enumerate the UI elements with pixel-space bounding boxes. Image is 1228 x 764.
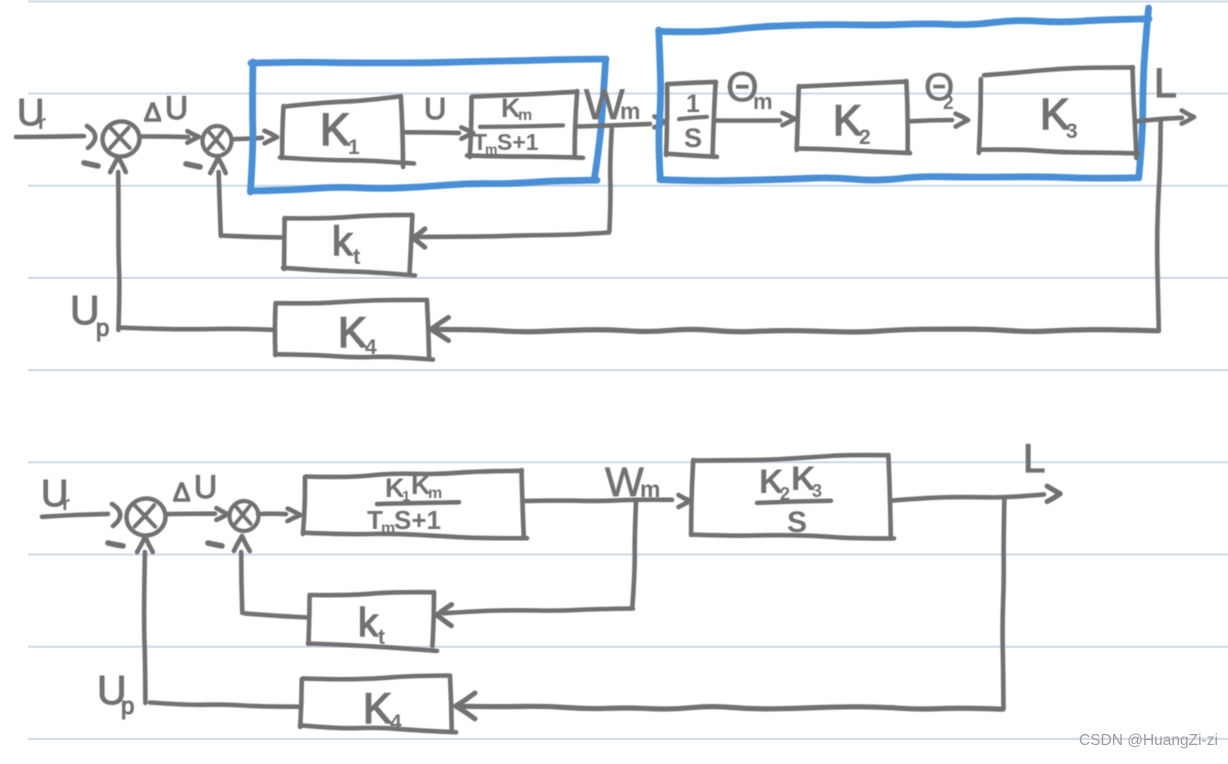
ruled line 7 xyxy=(28,553,1228,555)
svg-text:3: 3 xyxy=(812,481,822,501)
block K3 (top) xyxy=(984,67,1133,75)
block K1 (top) xyxy=(284,96,401,106)
arrowhead into K4 box (bottom) xyxy=(456,693,475,706)
summing junction 2 (top) xyxy=(201,125,233,157)
block K4 (top) xyxy=(277,300,427,303)
wire: K4 to junction1 (bottom) xyxy=(150,703,300,707)
svg-text:4: 4 xyxy=(390,711,402,734)
svg-text:r: r xyxy=(62,493,70,515)
svg-text:U: U xyxy=(165,90,188,126)
arrowhead into K2K3 block xyxy=(679,501,691,507)
arrowhead into kt box (bottom) xyxy=(437,605,452,615)
summing junction 1 (bottom) xyxy=(124,496,168,538)
svg-text:k: k xyxy=(332,218,353,264)
ruled line 8 xyxy=(28,646,1228,648)
svg-text:2: 2 xyxy=(859,126,871,149)
svg-text:p: p xyxy=(121,693,134,720)
wire: K4 feedback horizontal (top) xyxy=(437,329,1158,332)
svg-text:Δ: Δ xyxy=(173,477,190,507)
arrowhead up into junction1 (bottom) xyxy=(145,537,153,552)
svg-text:2: 2 xyxy=(943,93,954,114)
wire: K3 to output L (top) xyxy=(1137,118,1182,122)
block kt (bottom) xyxy=(311,592,434,595)
block kt (top) xyxy=(286,215,412,218)
svg-text:3: 3 xyxy=(1066,120,1078,143)
minus sign at bottom junction1 xyxy=(108,543,123,546)
svg-text:K: K xyxy=(338,309,367,357)
svg-text:U: U xyxy=(424,91,446,126)
arrowhead into Km block xyxy=(461,133,473,139)
svg-text:m: m xyxy=(485,141,497,157)
blue group box 2 (around 1/S, K2, K3) xyxy=(659,19,1149,32)
wire: junction2 to K1 (top) xyxy=(232,138,262,139)
minus sign at top junction 2 xyxy=(186,164,200,167)
svg-text:K: K xyxy=(833,97,862,145)
wire: K2 to K3 xyxy=(909,120,952,121)
ruled line 9 xyxy=(28,738,1228,740)
wire: kt feedback horizontal (bottom) xyxy=(443,609,633,614)
svg-text:K: K xyxy=(1040,90,1069,139)
block K2K3/S (bottom) xyxy=(694,455,888,460)
wire: output tap down for K4 feedback (bottom) xyxy=(1003,497,1005,709)
svg-text:W: W xyxy=(584,81,625,129)
summing junction 2 (bottom) xyxy=(228,500,260,532)
svg-text:m: m xyxy=(620,98,640,124)
arrowhead into 1/S block xyxy=(654,122,665,128)
arrowhead up into junction2 (top) xyxy=(218,158,226,173)
svg-text:K: K xyxy=(363,685,392,733)
arrowhead into K1Km block xyxy=(287,515,300,521)
arrowhead into K2 xyxy=(782,119,795,125)
minus sign at top junction 1 xyxy=(84,163,98,166)
block 1/S (top) xyxy=(668,82,716,84)
wire: kt to junction2 (bottom) xyxy=(245,613,308,617)
svg-text:S: S xyxy=(787,506,807,539)
block Km/(TmS+1) (top) xyxy=(472,92,577,97)
arrowhead output L (top) xyxy=(1182,117,1194,124)
svg-text:m: m xyxy=(428,485,442,502)
arrowhead output L (bottom) xyxy=(1047,494,1060,502)
arrowhead into bottom junction1 xyxy=(112,504,120,526)
svg-text:m: m xyxy=(518,107,532,124)
arrowhead into bottom junction2 xyxy=(216,514,228,520)
wire: K1Km block to K2K3 block with Wm label xyxy=(525,500,672,501)
blue group box 1 (around K1 and Km/TmS+1) xyxy=(251,59,606,63)
svg-text:m: m xyxy=(753,89,773,114)
block K2 (top) xyxy=(800,82,906,87)
ruled line 6 xyxy=(28,461,1228,463)
wire: junction2 to K1Km block xyxy=(258,511,286,516)
wire: Km block to 1/S block xyxy=(577,124,650,127)
arrowhead into K1 box xyxy=(265,137,278,143)
wire: kt feedback horizontal (top) xyxy=(418,233,609,237)
arrowhead into top summing junction 2 xyxy=(187,137,199,143)
wire: 1/S to K2 xyxy=(716,118,780,123)
svg-text:L: L xyxy=(1023,437,1045,481)
wire: K4 to junction1 (top) xyxy=(122,328,275,330)
block K4 (bottom) xyxy=(303,676,450,680)
svg-text:S+1: S+1 xyxy=(497,129,539,155)
svg-text:S: S xyxy=(684,123,702,153)
svg-text:W: W xyxy=(605,459,644,505)
wire: K1 to Km block with node U label xyxy=(403,130,459,135)
summing junction 1 (top) xyxy=(100,119,142,159)
wire: junction1 to junction2 (top) xyxy=(141,134,188,139)
svg-text:S+1: S+1 xyxy=(394,505,441,535)
ruled line 5 xyxy=(28,369,1228,371)
svg-text:k: k xyxy=(358,601,379,645)
ruled line 3 xyxy=(28,185,1228,187)
svg-text:CSDN @HuangZi-zi: CSDN @HuangZi-zi xyxy=(1079,732,1218,749)
svg-text:1: 1 xyxy=(348,136,360,159)
arrowhead into K4 box (top) xyxy=(431,317,448,329)
svg-text:4: 4 xyxy=(365,336,377,359)
arrowhead into top summing junction 1 xyxy=(87,126,95,148)
wire: kt box to junction2 (top) xyxy=(224,236,284,238)
svg-text:p: p xyxy=(96,315,109,342)
wire: bottom input Ur to junction1 xyxy=(42,514,108,517)
wire: Wm tap down to kt feedback (top) xyxy=(609,128,611,231)
wire: junction1 to junction2 (bottom) xyxy=(167,511,215,516)
arrowhead up into junction1 (top) xyxy=(118,157,126,172)
svg-text:m: m xyxy=(640,476,660,502)
block K1Km/(TmS+1) (bottom) xyxy=(306,471,522,477)
svg-text:U: U xyxy=(194,469,217,505)
svg-text:t: t xyxy=(353,244,361,269)
arrowhead up into junction2 (bottom) xyxy=(242,536,250,551)
wire: K4 feedback horizontal (bottom) xyxy=(462,706,1003,709)
svg-text:t: t xyxy=(378,626,385,649)
svg-text:Δ: Δ xyxy=(144,97,161,127)
ruled line 1 xyxy=(28,0,1228,2)
arrowhead into K3 xyxy=(956,120,968,127)
arrowhead into kt box (top) xyxy=(413,229,425,238)
svg-text:L: L xyxy=(1154,60,1177,106)
ruled line 2 xyxy=(28,92,1228,94)
svg-text:K: K xyxy=(320,104,350,155)
minus sign at bottom junction2 xyxy=(208,543,222,546)
wire: K2K3 block to output L (bottom) xyxy=(892,494,1044,500)
wire: top input Ur to summing junction 1 xyxy=(16,134,84,139)
svg-text:r: r xyxy=(38,112,46,134)
wire: L tap down for K4 feedback (top) xyxy=(1157,121,1161,331)
wire: Wm tap down for kt feedback (bottom) xyxy=(632,502,636,606)
ruled line 4 xyxy=(28,277,1228,279)
svg-text:1: 1 xyxy=(686,90,700,118)
